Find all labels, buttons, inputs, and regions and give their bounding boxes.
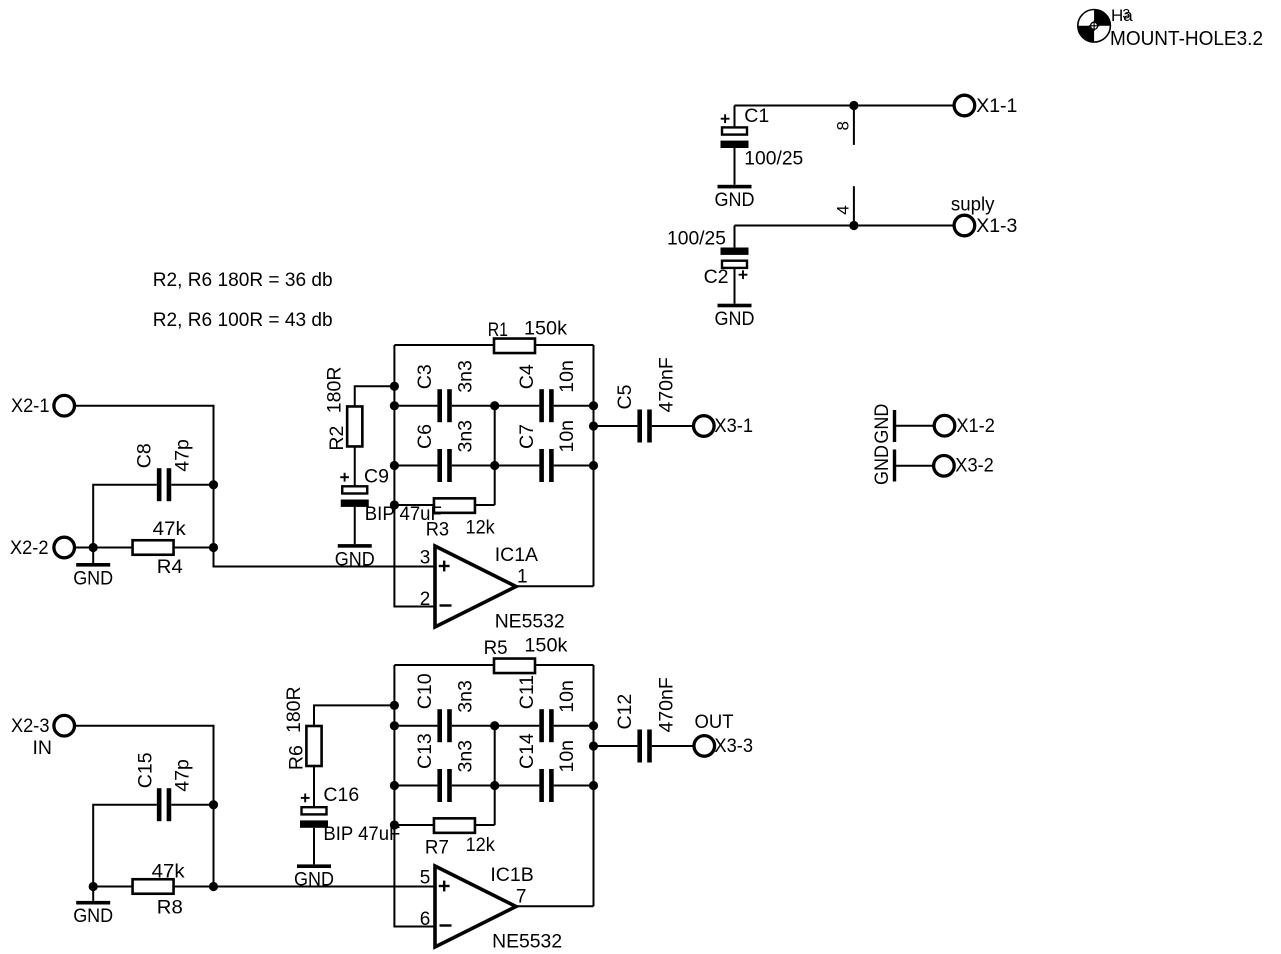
right rail channel A xyxy=(593,345,595,586)
connector X3-3 xyxy=(694,736,715,757)
ground xyxy=(734,303,736,305)
connector X3-1 xyxy=(694,416,715,437)
svg-text:C5: C5 xyxy=(614,384,636,409)
svg-text:47p: 47p xyxy=(172,439,194,472)
svg-text:GND: GND xyxy=(294,869,334,891)
svg-text:GND: GND xyxy=(335,548,375,570)
junction xyxy=(849,221,858,230)
svg-text:150k: 150k xyxy=(524,317,567,339)
svg-text:4: 4 xyxy=(833,205,852,214)
wire X2-3 to pin 5 run xyxy=(74,726,436,887)
svg-text:3n3: 3n3 xyxy=(454,420,476,453)
capacitor C14 xyxy=(539,769,544,802)
svg-text:X2-3: X2-3 xyxy=(11,715,50,737)
resistor R6 xyxy=(306,726,321,766)
ground xyxy=(92,548,94,564)
svg-text:3n3: 3n3 xyxy=(454,740,476,773)
svg-text:150k: 150k xyxy=(524,635,567,657)
svg-text:IC1B: IC1B xyxy=(490,864,533,886)
junction xyxy=(89,543,98,552)
resistor R7 xyxy=(434,818,475,833)
svg-text:47p: 47p xyxy=(172,759,194,792)
svg-text:C2: C2 xyxy=(704,266,729,288)
ground bar X1-2 xyxy=(893,410,896,442)
wire X2-1 to pin 3 run xyxy=(74,406,436,567)
capacitor C13 xyxy=(437,769,442,802)
connector X1-1 xyxy=(954,95,975,116)
svg-text:GND: GND xyxy=(73,567,113,589)
wire R1 to right rail xyxy=(536,344,594,346)
junction xyxy=(390,401,399,410)
wire output pin 1 xyxy=(516,585,594,587)
wire C6 row right xyxy=(452,465,495,467)
wire C10 row right xyxy=(452,725,495,727)
junction xyxy=(390,781,399,790)
svg-text:R8: R8 xyxy=(157,897,183,919)
junction xyxy=(209,882,218,891)
junction xyxy=(209,800,218,809)
svg-text:C10: C10 xyxy=(414,673,436,709)
svg-text:3: 3 xyxy=(420,547,431,568)
svg-text:X1-2: X1-2 xyxy=(956,415,995,437)
wire C4 row left xyxy=(495,405,540,407)
svg-text:IN: IN xyxy=(33,737,53,759)
wire output pin 7 xyxy=(516,905,594,907)
wire C3 row right xyxy=(452,405,495,407)
ground xyxy=(92,887,94,901)
svg-text:180R: 180R xyxy=(283,686,305,733)
svg-text:10n: 10n xyxy=(556,740,578,773)
svg-text:C15: C15 xyxy=(135,752,157,788)
junction xyxy=(89,882,98,891)
svg-text:3: 3 xyxy=(1122,6,1130,22)
svg-text:R2, R6 100R = 43 db: R2, R6 100R = 43 db xyxy=(153,309,333,331)
svg-text:BIP 47uF: BIP 47uF xyxy=(365,503,442,525)
wire R3 left xyxy=(394,504,434,506)
wire C16 to ground xyxy=(313,828,315,865)
svg-text:C16: C16 xyxy=(323,784,359,806)
capacitor C10 xyxy=(437,709,442,742)
svg-text:C4: C4 xyxy=(516,364,538,389)
svg-text:C3: C3 xyxy=(414,364,436,389)
svg-text:C9: C9 xyxy=(364,465,389,487)
wire R8 left xyxy=(93,886,132,888)
capacitor C5 xyxy=(637,410,642,443)
svg-text:X2-1: X2-1 xyxy=(11,395,50,417)
wire mid node vertical xyxy=(494,406,496,505)
junction xyxy=(390,500,399,509)
wire C11 row right xyxy=(554,725,594,727)
capacitor C6 xyxy=(437,449,442,482)
capacitor C16 xyxy=(302,807,327,814)
svg-text:10n: 10n xyxy=(556,420,578,453)
svg-text:R2, R6 180R = 36 db: R2, R6 180R = 36 db xyxy=(153,269,333,291)
capacitor C1 xyxy=(734,106,736,128)
junction xyxy=(589,401,598,410)
junction xyxy=(390,701,399,710)
svg-text:100/25: 100/25 xyxy=(744,148,803,170)
wire R6 top xyxy=(314,705,394,726)
junction xyxy=(589,421,598,430)
wire C13 row right xyxy=(452,785,495,787)
wire C11 row left xyxy=(495,725,540,727)
wire C8 branch left xyxy=(93,485,157,548)
wire to X3-2 xyxy=(895,465,935,467)
svg-text:X3-2: X3-2 xyxy=(955,454,994,476)
svg-text:C12: C12 xyxy=(614,694,636,730)
capacitor C2 xyxy=(734,226,736,248)
wire X2-2 to R4 xyxy=(74,547,133,549)
junction xyxy=(209,480,218,489)
svg-text:C6: C6 xyxy=(414,424,436,449)
capacitor C8 xyxy=(157,468,162,501)
svg-text:NE5532: NE5532 xyxy=(495,611,565,633)
wire C1 to X1-1 xyxy=(735,105,956,107)
ground bar X3-2 xyxy=(893,450,896,482)
junction xyxy=(589,721,598,730)
wire C3 row left xyxy=(394,405,437,407)
junction xyxy=(209,543,218,552)
svg-text:7: 7 xyxy=(516,886,527,907)
svg-text:10n: 10n xyxy=(556,680,578,713)
ground xyxy=(734,184,736,186)
wire C9 to ground xyxy=(354,507,356,544)
svg-text:3n3: 3n3 xyxy=(454,680,476,713)
resistor R4 xyxy=(133,540,174,555)
svg-text:1: 1 xyxy=(517,566,528,587)
resistor R1 xyxy=(494,339,535,354)
junction xyxy=(490,781,499,790)
svg-text:5: 5 xyxy=(420,867,431,888)
left rail channel A xyxy=(394,345,435,607)
capacitor C11 xyxy=(539,709,544,742)
svg-text:C7: C7 xyxy=(516,424,538,449)
ground xyxy=(313,863,315,865)
svg-text:X2-2: X2-2 xyxy=(10,537,49,559)
wire C15 branch left xyxy=(93,805,157,887)
svg-text:suply: suply xyxy=(951,193,995,215)
wire R2 top xyxy=(355,386,395,407)
svg-text:47k: 47k xyxy=(153,518,186,540)
svg-text:GND: GND xyxy=(871,404,893,444)
svg-text:R5: R5 xyxy=(484,637,508,659)
svg-text:GND: GND xyxy=(73,905,113,927)
wire C8 right xyxy=(171,484,213,486)
svg-text:8: 8 xyxy=(833,121,852,130)
svg-text:C1: C1 xyxy=(744,105,769,127)
wire C12 row xyxy=(594,745,638,747)
svg-text:R7: R7 xyxy=(425,836,449,858)
wire C14 row right xyxy=(554,785,594,787)
svg-text:BIP 47uF: BIP 47uF xyxy=(323,823,400,845)
wire C6 row left xyxy=(394,465,437,467)
svg-text:C13: C13 xyxy=(414,733,436,769)
wire C14 row left xyxy=(495,785,540,787)
wire to X1-2 xyxy=(895,425,935,427)
svg-text:R2: R2 xyxy=(326,426,348,451)
capacitor C7 xyxy=(539,449,544,482)
svg-text:3n3: 3n3 xyxy=(454,360,476,393)
svg-text:X1-1: X1-1 xyxy=(976,95,1017,117)
left rail channel B xyxy=(394,665,435,927)
wire R3 right xyxy=(475,504,495,506)
svg-text:GND: GND xyxy=(715,308,755,330)
svg-text:100/25: 100/25 xyxy=(667,227,726,249)
pin 8 stub xyxy=(853,106,855,145)
op-amp IC1A xyxy=(435,546,516,627)
svg-text:NE5532: NE5532 xyxy=(492,931,562,953)
wire C7 row right xyxy=(554,465,594,467)
wire C13 row left xyxy=(394,785,437,787)
wire R7 left xyxy=(394,824,434,826)
junction xyxy=(390,820,399,829)
svg-text:GND: GND xyxy=(871,445,893,485)
svg-text:R6: R6 xyxy=(286,745,308,770)
right rail channel B xyxy=(593,665,595,906)
wire R4 right xyxy=(174,547,214,549)
svg-text:470nF: 470nF xyxy=(656,677,678,732)
junction xyxy=(849,101,858,110)
connector X1-2 xyxy=(934,415,955,436)
junction xyxy=(390,721,399,730)
svg-text:C14: C14 xyxy=(516,733,538,769)
capacitor C4 xyxy=(539,389,544,422)
connector X3-2 xyxy=(934,456,955,477)
connector X1-3 xyxy=(954,215,975,236)
svg-text:C11: C11 xyxy=(516,675,538,709)
junction xyxy=(490,401,499,410)
wire C15 right xyxy=(171,804,213,806)
svg-text:2: 2 xyxy=(420,589,431,610)
wire R5 to right rail xyxy=(536,664,594,666)
svg-text:X1-3: X1-3 xyxy=(976,215,1017,237)
resistor R2 xyxy=(347,406,362,446)
wire C5 to X3-1 xyxy=(652,425,694,427)
ground xyxy=(354,543,356,545)
wire C2 to X1-3 xyxy=(735,225,956,227)
junction xyxy=(490,461,499,470)
capacitor C9 xyxy=(342,486,367,493)
svg-text:12k: 12k xyxy=(466,834,495,856)
svg-text:MOUNT-HOLE3.2: MOUNT-HOLE3.2 xyxy=(1110,27,1263,50)
capacitor C15 xyxy=(157,788,162,821)
op-amp IC1B xyxy=(435,866,516,947)
svg-text:C8: C8 xyxy=(134,443,156,468)
svg-text:10n: 10n xyxy=(556,360,578,393)
svg-text:470nF: 470nF xyxy=(656,357,678,412)
wire mid node vertical xyxy=(494,726,496,825)
svg-text:GND: GND xyxy=(715,189,755,211)
svg-text:R1: R1 xyxy=(488,319,508,341)
junction xyxy=(589,461,598,470)
junction xyxy=(490,721,499,730)
wire R2 to C9 xyxy=(354,446,356,486)
svg-text:X3-1: X3-1 xyxy=(714,415,753,437)
svg-text:R4: R4 xyxy=(157,556,183,578)
junction xyxy=(589,741,598,750)
resistor R8 xyxy=(133,879,174,894)
svg-text:6: 6 xyxy=(420,909,431,930)
wire C5 row xyxy=(594,425,638,427)
junction xyxy=(390,461,399,470)
svg-text:180R: 180R xyxy=(324,367,346,414)
svg-text:X3-3: X3-3 xyxy=(714,735,753,757)
mount hole H symbol xyxy=(1094,10,1110,26)
wire top feedback row xyxy=(394,664,493,666)
junction xyxy=(589,781,598,790)
wire top feedback row xyxy=(394,344,493,346)
svg-text:12k: 12k xyxy=(466,516,495,538)
wire C7 row left xyxy=(495,465,540,467)
junction xyxy=(390,382,399,391)
wire R6 to C16 xyxy=(313,766,315,807)
svg-text:IC1A: IC1A xyxy=(495,544,538,566)
wire R8 right xyxy=(174,886,214,888)
capacitor C12 xyxy=(637,730,642,763)
pin 4 stub xyxy=(853,186,855,225)
wire R7 right xyxy=(475,824,495,826)
wire C4 row right xyxy=(554,405,594,407)
wire C12 to X3-3 xyxy=(652,745,694,747)
resistor R5 xyxy=(494,659,535,674)
wire C10 row left xyxy=(394,725,437,727)
resistor R3 xyxy=(434,498,475,512)
svg-text:OUT: OUT xyxy=(695,711,734,733)
svg-text:47k: 47k xyxy=(152,861,185,883)
capacitor C3 xyxy=(437,389,442,422)
